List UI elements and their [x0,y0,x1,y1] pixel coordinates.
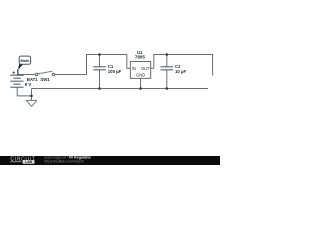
node Main flag [18,56,31,74]
ground [26,100,36,106]
junction C1 top node [98,53,101,56]
wire ground connector [31,89,33,101]
svg-text:SW1: SW1 [40,77,50,82]
junction C2 top node [166,53,169,56]
capacitor C1 plates [93,67,106,70]
junction C1 bottom node [98,87,101,90]
junction U1 GND node [139,87,142,90]
switch SW1 [35,73,55,76]
junction battery-/ground node [30,95,33,98]
capacitor C2 plates [161,67,174,70]
svg-text:GND: GND [136,73,145,78]
svg-text:100 µF: 100 µF [108,69,122,74]
svg-text:10 µF: 10 µF [175,69,186,74]
battery plus sign [12,71,15,74]
wire GND pin of U1 to bottom rail [140,78,142,88]
capacitor C2 leads [166,55,168,67]
wire bottom rail [32,88,209,90]
wire battery- to ground node [17,87,31,96]
regulator U1 7805 body [130,62,150,79]
svg-text:LAB: LAB [25,160,32,164]
svg-text:Main: Main [20,58,30,63]
svg-text:http://circuitlab.com/c/katyr5: http://circuitlab.com/c/katyr5 [44,160,84,164]
wire switch to IN pin of U1 [55,55,130,75]
junction C2 bottom node [166,87,169,90]
capacitor C1 leads [99,55,101,67]
footer bar [0,156,220,165]
wire OUT pin of U1 to output rail [151,55,213,76]
footer logo wave [10,161,21,162]
battery BAT1 plates [10,75,23,88]
svg-text:OUT: OUT [141,66,150,71]
svg-text:IN: IN [132,66,136,71]
svg-text:7805: 7805 [135,55,146,60]
wire battery+ to switch [17,74,35,76]
footer logo LAB badge [23,160,35,164]
svg-text:9 V: 9 V [25,82,32,87]
